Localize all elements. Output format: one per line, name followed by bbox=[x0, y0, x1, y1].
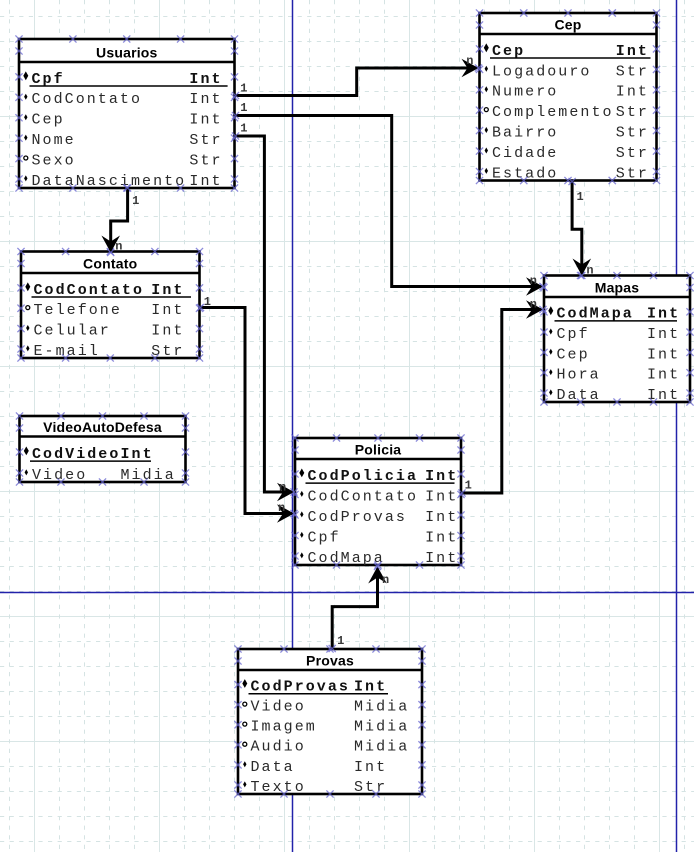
svg-text:Audio: Audio bbox=[251, 739, 306, 756]
svg-text:n: n bbox=[586, 263, 593, 277]
svg-text:Celular: Celular bbox=[34, 323, 111, 340]
svg-text:Policia: Policia bbox=[355, 442, 402, 458]
relation Usuarios-Contato (1:n) bbox=[101, 184, 139, 256]
table Cep bbox=[480, 13, 657, 182]
svg-text:Cep: Cep bbox=[557, 346, 590, 363]
selection handles of table Usuarios bbox=[15, 35, 238, 191]
svg-text:Numero: Numero bbox=[492, 84, 558, 101]
svg-text:Str: Str bbox=[354, 779, 387, 796]
relation Policia-Mapas (1:n) bbox=[458, 297, 546, 496]
relation Usuarios-Policia (1:n) bbox=[232, 121, 298, 501]
svg-text:Int: Int bbox=[151, 302, 184, 319]
svg-text:Int: Int bbox=[425, 488, 458, 505]
svg-text:Int: Int bbox=[647, 367, 680, 384]
svg-text:Str: Str bbox=[616, 125, 649, 142]
selection handles of table Mapas bbox=[540, 272, 693, 406]
page boundary vertical line 2 bbox=[676, 0, 678, 852]
svg-text:Provas: Provas bbox=[306, 653, 354, 669]
svg-text:n: n bbox=[115, 240, 122, 254]
selection handles of table Provas bbox=[234, 645, 425, 797]
svg-text:CodContato: CodContato bbox=[308, 488, 419, 505]
svg-text:Int: Int bbox=[425, 509, 458, 526]
svg-text:Int: Int bbox=[354, 759, 387, 776]
svg-text:Midia: Midia bbox=[354, 699, 409, 716]
svg-text:n: n bbox=[466, 54, 473, 68]
svg-text:1: 1 bbox=[240, 121, 247, 135]
svg-text:Cpf: Cpf bbox=[308, 529, 341, 546]
svg-text:Cpf: Cpf bbox=[557, 326, 590, 343]
svg-text:Int: Int bbox=[189, 173, 222, 190]
svg-text:DataNascimento: DataNascimento bbox=[32, 173, 187, 190]
selection handles of table VideoAutoDefesa bbox=[16, 412, 189, 485]
selection handles of table Policia bbox=[291, 434, 464, 568]
svg-text:1: 1 bbox=[240, 101, 247, 115]
svg-text:Data: Data bbox=[557, 387, 601, 404]
relation Cep-Mapas (1:n) bbox=[569, 178, 594, 279]
relation Usuarios-Cep (1:n) bbox=[232, 54, 482, 99]
svg-text:Midia: Midia bbox=[121, 467, 176, 484]
svg-text:Int: Int bbox=[189, 112, 222, 129]
svg-text:Hora: Hora bbox=[557, 367, 601, 384]
svg-text:Int: Int bbox=[647, 346, 680, 363]
selection handles of table Cep bbox=[476, 9, 660, 184]
svg-text:Nome: Nome bbox=[32, 132, 76, 149]
svg-text:Usuarios: Usuarios bbox=[96, 45, 158, 61]
svg-text:Cep: Cep bbox=[32, 112, 65, 129]
table VideoAutoDefesa bbox=[20, 416, 186, 484]
svg-text:Str: Str bbox=[616, 145, 649, 162]
svg-text:Int: Int bbox=[189, 91, 222, 108]
relation Usuarios-Mapas (1:n) bbox=[232, 101, 547, 296]
svg-text:VideoAutoDefesa: VideoAutoDefesa bbox=[43, 419, 162, 435]
table Provas bbox=[238, 649, 422, 796]
svg-text:Cep: Cep bbox=[554, 17, 581, 33]
svg-text:1: 1 bbox=[577, 190, 584, 204]
svg-text:n: n bbox=[279, 480, 286, 494]
svg-text:Int: Int bbox=[425, 550, 458, 567]
svg-text:Texto: Texto bbox=[251, 779, 306, 796]
svg-text:1: 1 bbox=[240, 82, 247, 96]
svg-text:Sexo: Sexo bbox=[32, 153, 76, 170]
svg-text:Telefone: Telefone bbox=[34, 302, 122, 319]
svg-text:Complemento: Complemento bbox=[492, 104, 614, 121]
table Usuarios bbox=[19, 39, 235, 190]
svg-text:Int: Int bbox=[151, 323, 184, 340]
svg-text:n: n bbox=[278, 501, 285, 515]
svg-text:Bairro: Bairro bbox=[492, 125, 558, 142]
svg-text:Data: Data bbox=[251, 759, 295, 776]
svg-text:Contato: Contato bbox=[83, 256, 137, 272]
svg-text:Int: Int bbox=[616, 84, 649, 101]
svg-text:CodMapa: CodMapa bbox=[308, 550, 385, 567]
table Contato bbox=[21, 252, 200, 360]
svg-text:Str: Str bbox=[616, 63, 649, 80]
svg-text:Int: Int bbox=[425, 529, 458, 546]
page boundary horizontal line bbox=[0, 592, 694, 594]
relation Contato-Policia (1:n) bbox=[197, 295, 298, 523]
svg-text:Str: Str bbox=[616, 104, 649, 121]
svg-text:Str: Str bbox=[189, 153, 222, 170]
svg-text:1: 1 bbox=[204, 295, 211, 309]
svg-text:CodContato: CodContato bbox=[32, 91, 143, 108]
svg-text:Logadouro: Logadouro bbox=[492, 63, 591, 80]
svg-text:CodProvas: CodProvas bbox=[308, 509, 407, 526]
svg-text:Int: Int bbox=[647, 326, 680, 343]
page boundary vertical line 1 bbox=[292, 0, 294, 852]
svg-text:1: 1 bbox=[132, 194, 139, 208]
relation Provas-Policia (1:n) bbox=[329, 563, 390, 652]
svg-text:Imagem: Imagem bbox=[251, 719, 317, 736]
svg-text:Str: Str bbox=[616, 165, 649, 182]
svg-text:n: n bbox=[530, 274, 537, 288]
selection handles of table Contato bbox=[17, 248, 203, 362]
svg-text:Midia: Midia bbox=[354, 739, 409, 756]
svg-text:Midia: Midia bbox=[354, 719, 409, 736]
svg-text:Video: Video bbox=[251, 699, 306, 716]
table Policia bbox=[295, 438, 461, 567]
svg-text:n: n bbox=[530, 297, 537, 311]
svg-text:Str: Str bbox=[189, 132, 222, 149]
svg-text:n: n bbox=[382, 573, 389, 587]
svg-text:1: 1 bbox=[337, 634, 344, 648]
svg-text:Cidade: Cidade bbox=[492, 145, 558, 162]
svg-text:Mapas: Mapas bbox=[595, 280, 640, 296]
table Mapas bbox=[544, 276, 690, 404]
